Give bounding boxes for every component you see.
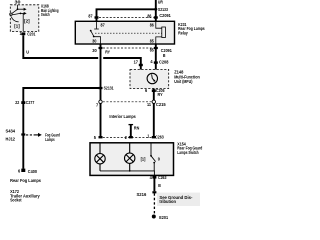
relay K231 coil [156, 21, 166, 44]
svg-text:C215: C215 [156, 102, 166, 107]
svg-text:[2]: [2] [24, 18, 30, 23]
svg-text:4: 4 [150, 59, 153, 64]
svg-text:C201: C201 [27, 31, 36, 36]
svg-text:B: B [163, 53, 166, 58]
svg-text:RY: RY [105, 49, 110, 54]
wire RN stub from interior lamps [129, 125, 140, 138]
svg-text:RN: RN [134, 126, 139, 131]
svg-text:87: 87 [88, 13, 93, 18]
wire label U [26, 49, 29, 54]
svg-text:Lamps: Lamps [45, 137, 55, 142]
pin 30 label X168 [15, 0, 22, 4]
wire B from X154 pin 4 to ground [153, 175, 155, 191]
svg-text:30: 30 [92, 48, 97, 53]
connector C263 pin 4 [150, 175, 167, 180]
svg-text:Relay: Relay [178, 30, 188, 35]
svg-text:7: 7 [96, 102, 99, 107]
svg-text:S2131: S2131 [104, 86, 114, 91]
svg-text:C400: C400 [28, 169, 38, 174]
svg-text:RY: RY [158, 92, 163, 97]
svg-text:S216: S216 [137, 192, 147, 197]
dashed ground wire [153, 193, 155, 214]
splice S434 with arrow to fog guard lamps [6, 128, 61, 142]
wire RY from relay 30 [100, 44, 102, 100]
relay K231 contact internals [90, 21, 162, 44]
X154 bus wire to pin 4 [100, 171, 154, 176]
wire RY through C215 to C263 pin 5 [100, 103, 102, 137]
svg-text:[1]: [1] [14, 23, 20, 28]
svg-text:1: 1 [147, 134, 150, 139]
svg-text:HJ12: HJ12 [6, 137, 16, 142]
wire RY from C205 to C263 [153, 89, 155, 138]
X168 internal contacts [10, 5, 27, 32]
connector C215 dashed link [103, 101, 152, 103]
wire B from relay 85 to MFU [155, 44, 157, 70]
lamp 1 in X154 [95, 143, 105, 171]
svg-text:6: 6 [145, 88, 148, 93]
svg-text:Socket: Socket [10, 198, 22, 203]
svg-text:22: 22 [15, 100, 20, 105]
svg-text:S434: S434 [6, 128, 16, 133]
MFU Z148 box [130, 70, 169, 89]
label [2] [24, 18, 30, 23]
label K231 Rear Fog Lamps Relay [178, 22, 205, 36]
ground point E201 [152, 215, 169, 221]
connector C400 pin 6 [18, 169, 38, 174]
wire UR supply from top [155, 0, 157, 21]
connector C263 row pins 5,2,1 [94, 134, 164, 141]
label Rear Fog Lamps destination [10, 178, 41, 183]
label Z148 Multi-Function Unit (MFU) [174, 69, 200, 84]
svg-text:tribution: tribution [159, 199, 176, 204]
svg-text:85: 85 [150, 47, 155, 52]
X154 internal switch contact [150, 143, 156, 171]
relay K231 box [75, 21, 174, 44]
svg-text:C2091: C2091 [159, 13, 171, 18]
svg-text:C263: C263 [155, 135, 164, 140]
svg-text:30: 30 [92, 39, 97, 44]
relay internal pin labels [92, 22, 154, 43]
label [1] [14, 23, 20, 28]
MFU clock symbol [147, 73, 157, 83]
wire U from C201 to MFU pin 17 [23, 35, 141, 69]
label X154 Rear Fog Guard Lamps Switch [177, 141, 202, 154]
label Interior Lamps [109, 114, 136, 119]
X154 internal labels [141, 157, 161, 162]
svg-text:U: U [26, 49, 29, 54]
connector C205 pin 6 [145, 88, 165, 93]
wire label B [158, 183, 161, 188]
svg-text:C263: C263 [158, 175, 167, 180]
label X168 Main Lighting Switch [41, 4, 59, 17]
svg-text:2: 2 [125, 135, 128, 140]
svg-text:S2133: S2133 [158, 7, 168, 12]
lamp 2 in X154 [125, 143, 135, 172]
svg-text:[1]: [1] [141, 157, 146, 162]
connector C201 pin 1 [20, 31, 36, 36]
splice S2133 [154, 7, 168, 12]
connector C2091 B row (pins 30,85) [92, 47, 172, 58]
svg-text:Lamps Switch: Lamps Switch [177, 150, 199, 155]
svg-text:C208: C208 [159, 60, 169, 65]
splice S2131 [99, 86, 115, 91]
svg-text:86: 86 [150, 22, 155, 27]
connector C208 pins 17,4 [134, 59, 169, 66]
svg-text:UR: UR [158, 0, 164, 5]
svg-text:Interior Lamps: Interior Lamps [109, 114, 136, 119]
svg-text:86: 86 [147, 14, 152, 19]
svg-text:11: 11 [147, 102, 152, 107]
connector C277 pin 22 [15, 100, 35, 105]
wire label UR [158, 0, 164, 5]
see ground distribution box [157, 193, 200, 206]
svg-text:85: 85 [150, 39, 155, 44]
connector C215 ring pin 11 [147, 100, 166, 107]
svg-text:Unit (MFU): Unit (MFU) [174, 79, 193, 84]
svg-text:B: B [158, 183, 161, 188]
switch X154 box [90, 143, 174, 176]
splice S216 [137, 191, 157, 197]
svg-text:Switch: Switch [41, 12, 50, 17]
svg-text:6: 6 [18, 169, 21, 174]
switch X168 Main Lighting Switch box [10, 5, 39, 32]
wire label RY [158, 92, 163, 97]
svg-text:E201: E201 [159, 215, 168, 220]
wire relay pin 87 riser [97, 9, 156, 21]
connector C2091 row (pins 87,86) [88, 13, 171, 19]
svg-text:5: 5 [94, 135, 97, 140]
svg-text:Rear Fog Lamps: Rear Fog Lamps [10, 178, 41, 183]
svg-text:17: 17 [134, 60, 139, 65]
left rail wire from S2131 to C400 [23, 88, 100, 169]
label X172 Trailer Auxiliary Socket [10, 189, 40, 202]
svg-text:C277: C277 [26, 100, 35, 105]
connector C215 ring pin 7 [96, 100, 102, 107]
svg-text:30: 30 [15, 0, 22, 4]
svg-text:87: 87 [101, 23, 106, 28]
